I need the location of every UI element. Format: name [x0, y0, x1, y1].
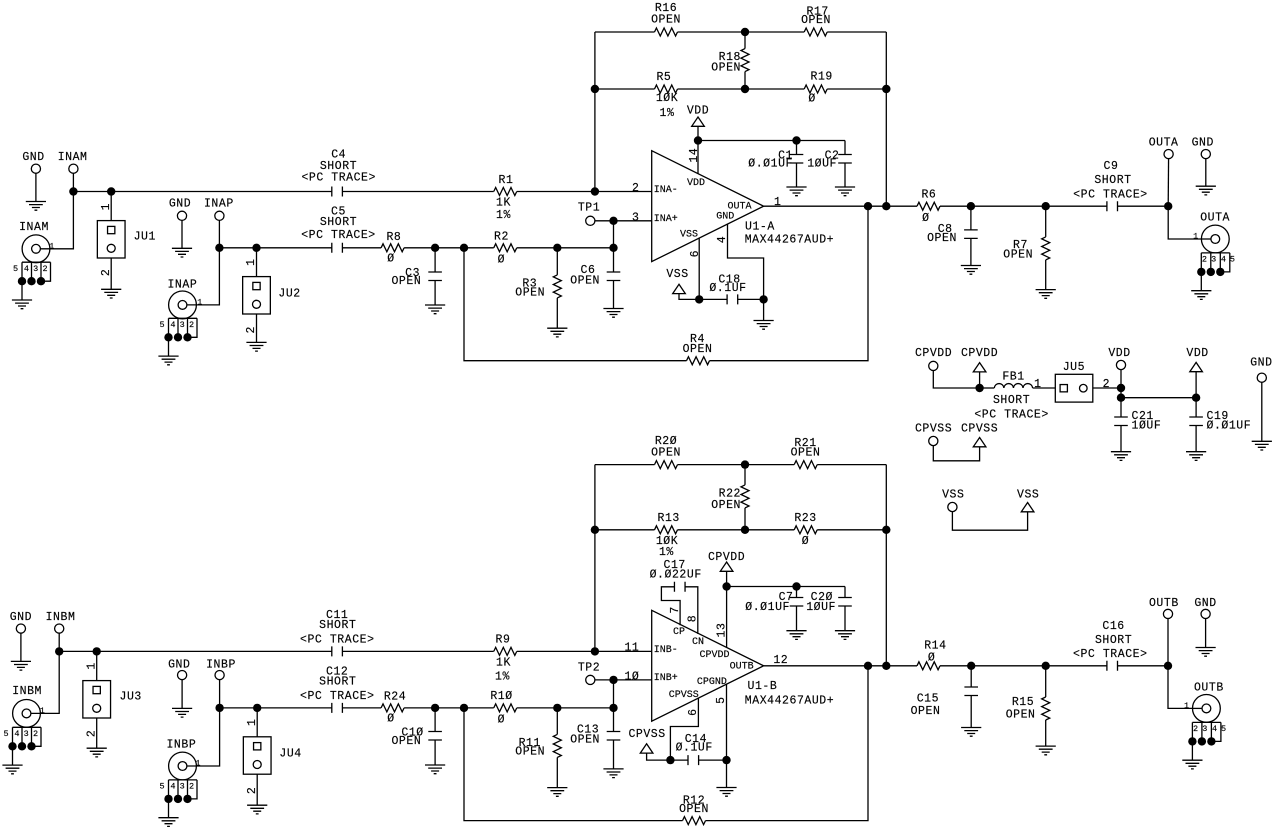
connector INAM BNC outer circle — [22, 235, 50, 263]
svg-text:OPEN: OPEN — [1006, 709, 1036, 722]
capacitor C11 — [332, 646, 343, 656]
ground under C19 — [1186, 452, 1206, 461]
svg-text:VSS: VSS — [942, 488, 964, 501]
resistor R3 — [553, 275, 561, 298]
JU2 pin 2 lead — [256, 314, 258, 342]
power arrow VDD (U1-A) — [692, 117, 705, 126]
ground under C14 node — [716, 788, 736, 797]
wire INAM line segment 2 — [342, 191, 493, 193]
capacitor C12 — [332, 703, 343, 713]
INAP BNC pin junction — [174, 333, 182, 341]
INBP BNC pin junction — [164, 795, 172, 803]
resistor R5 — [655, 85, 678, 93]
resistor R15 — [1042, 697, 1050, 720]
connector INBM BNC outer circle — [13, 700, 41, 728]
OUTA BNC ground — [1191, 291, 1211, 300]
feedback mid wire segment 3 — [827, 88, 886, 90]
svg-text:JU1: JU1 — [134, 230, 156, 243]
svg-text:2: 2 — [189, 320, 194, 330]
junction C15 tap — [967, 662, 975, 670]
junction JU2 tap — [252, 244, 260, 252]
svg-text:5: 5 — [1230, 255, 1235, 265]
R3 top lead — [556, 248, 558, 275]
resistor R13 — [655, 526, 678, 534]
ground under GND port (top left) — [26, 202, 46, 211]
C21 bottom lead — [1120, 426, 1122, 452]
JU1 pin 1 lead — [110, 192, 112, 221]
svg-text:R13: R13 — [658, 512, 680, 525]
jumper JU2 body — [243, 277, 271, 314]
svg-text:R1: R1 — [499, 174, 514, 187]
CPVDD port lead — [933, 366, 979, 388]
wire INBP line segment 3 — [404, 707, 494, 709]
svg-text:13: 13 — [715, 623, 728, 638]
svg-text:4: 4 — [170, 320, 175, 330]
junction R3 node — [553, 244, 561, 252]
svg-text:GND: GND — [168, 658, 190, 671]
R4 loop wire right — [710, 206, 869, 361]
port INAM — [69, 164, 78, 173]
TP1 to INA+ wire — [595, 220, 652, 222]
C6 bottom lead — [613, 281, 615, 309]
svg-text:4: 4 — [170, 782, 175, 792]
svg-text:OPEN: OPEN — [570, 734, 600, 747]
C15 top lead — [970, 666, 972, 687]
svg-text:1: 1 — [774, 196, 781, 209]
junction INBP-port — [215, 704, 223, 712]
INBM BNC pin junction — [8, 742, 16, 750]
C10 bottom lead — [434, 740, 436, 765]
ground under C20 — [835, 631, 855, 640]
CPVDD bypass wire — [727, 586, 845, 588]
svg-text:VSS: VSS — [666, 268, 688, 281]
connector INAM BNC pin 1 wire — [36, 192, 73, 249]
ground under C8 — [961, 266, 981, 275]
svg-text:C9: C9 — [1104, 160, 1119, 173]
svg-text:GND: GND — [716, 212, 734, 223]
junction INA- node — [591, 187, 599, 195]
C14 left lead — [670, 759, 688, 761]
C1 bottom lead — [796, 163, 798, 187]
connector INBM BNC inner circle — [22, 709, 31, 718]
capacitor C19 — [1189, 417, 1203, 426]
svg-text:GND: GND — [1192, 137, 1214, 150]
svg-text:1: 1 — [1034, 378, 1041, 391]
OUTB BNC pin bracket — [1192, 722, 1221, 741]
svg-text:OPEN: OPEN — [791, 447, 821, 460]
junction C18 right — [759, 295, 767, 303]
port INBP — [215, 671, 224, 680]
svg-text:1ØUF: 1ØUF — [1132, 419, 1162, 432]
svg-text:11: 11 — [624, 642, 639, 655]
svg-text:3: 3 — [1211, 255, 1216, 265]
ground under C13 — [603, 769, 623, 778]
capacitor C8 — [964, 230, 978, 239]
svg-text:OUTA: OUTA — [1200, 211, 1230, 224]
C13 bottom lead — [613, 740, 615, 769]
svg-text:OPEN: OPEN — [711, 499, 741, 512]
svg-text:12: 12 — [773, 654, 788, 667]
junction CPVDD-FB1 — [975, 384, 983, 392]
ground under R3 — [547, 328, 567, 337]
svg-text:R19: R19 — [811, 71, 833, 84]
svg-text:OPEN: OPEN — [570, 274, 600, 287]
svg-text:Ø: Ø — [928, 652, 935, 665]
C8 top lead — [970, 206, 972, 230]
wire INBM line segment 2 — [342, 650, 493, 652]
port GND (mid right) — [1257, 373, 1266, 382]
junction feedback right output B — [882, 662, 890, 670]
svg-text:R24: R24 — [384, 690, 406, 703]
ground under C15 — [961, 728, 981, 737]
ground under C21 — [1111, 452, 1131, 461]
port GND (top left) — [31, 164, 40, 173]
svg-text:1%: 1% — [495, 670, 510, 683]
svg-text:5: 5 — [160, 320, 165, 330]
svg-text:OPEN: OPEN — [679, 803, 709, 816]
wire OUTA segment 2 — [940, 205, 1107, 207]
INAM BNC pin junction — [27, 277, 35, 285]
INAP BNC pin bracket — [169, 318, 198, 337]
INAM BNC ground lead — [21, 281, 23, 300]
junction R4 branch node — [460, 244, 468, 252]
svg-text:1: 1 — [49, 241, 54, 251]
svg-text:C16: C16 — [1102, 620, 1124, 633]
ground under GND port (bottom right) — [1196, 648, 1216, 657]
port VDD — [1116, 360, 1125, 369]
svg-text:INBM: INBM — [46, 611, 76, 624]
svg-text:14: 14 — [688, 148, 701, 163]
svg-text:VDD: VDD — [1186, 347, 1208, 360]
svg-text:OPEN: OPEN — [391, 275, 421, 288]
svg-text:R2: R2 — [494, 230, 509, 243]
R22 top lead — [744, 465, 746, 485]
svg-text:GND: GND — [22, 151, 44, 164]
VSS arrow lead to C18 — [679, 294, 699, 300]
C17 left wire / U1-B pin 7 — [661, 587, 680, 625]
svg-text:FB1: FB1 — [1002, 371, 1024, 384]
INBP BNC ground — [158, 818, 178, 827]
junction C6 node — [609, 244, 617, 252]
svg-text:INAP: INAP — [167, 278, 197, 291]
resistor R18 — [741, 49, 749, 72]
ground under GND port (top right) — [1196, 186, 1216, 195]
connector OUTB BNC pin 1 wire — [1193, 707, 1207, 709]
svg-text:2: 2 — [100, 269, 113, 276]
port CPVSS — [929, 436, 938, 445]
feedback mid wire B segment 3 — [817, 529, 886, 531]
svg-text:3: 3 — [1202, 724, 1207, 734]
connector INAM BNC inner circle — [32, 244, 41, 253]
svg-text:4: 4 — [716, 236, 729, 243]
svg-text:Ø.Ø22UF: Ø.Ø22UF — [650, 568, 702, 581]
svg-text:1: 1 — [195, 759, 200, 769]
junction feedback left R13 — [591, 526, 599, 534]
GND port lead (bottom left) — [20, 629, 22, 662]
svg-text:OPEN: OPEN — [683, 343, 713, 356]
power arrow VSS (U1-A) — [673, 284, 686, 293]
INAM port lead — [72, 169, 74, 192]
port OUTB — [1163, 609, 1172, 618]
svg-text:1: 1 — [246, 719, 259, 726]
svg-text:INA+: INA+ — [654, 214, 678, 225]
svg-text:OPEN: OPEN — [801, 14, 831, 27]
INBM BNC pin junction — [27, 742, 35, 750]
ground under GND port (bottom left) — [11, 661, 31, 670]
resistor R11 — [553, 734, 561, 757]
wire INBP line segment 4 — [517, 707, 614, 709]
svg-text:1: 1 — [100, 203, 113, 210]
svg-text:OPEN: OPEN — [1003, 249, 1033, 262]
port INBM — [55, 624, 64, 633]
port GND (bottom left) — [16, 624, 25, 633]
C14 ground lead — [726, 760, 728, 787]
feedback left vertical (B) — [594, 465, 596, 652]
svg-text:INB-: INB- — [654, 645, 678, 656]
C17 right wire / U1-B pin 8 — [685, 587, 698, 634]
svg-text:Ø: Ø — [802, 535, 809, 548]
junction JU4 tap — [253, 704, 261, 712]
svg-text:1K: 1K — [496, 657, 511, 670]
OUTA port lead — [1167, 154, 1169, 206]
wire OUTA segment 1 — [764, 205, 917, 207]
resistor R9 — [494, 647, 517, 655]
INAP BNC ground — [158, 356, 178, 365]
svg-text:INB+: INB+ — [654, 673, 678, 684]
jumper JU1 body — [97, 221, 125, 258]
capacitor C18 — [727, 294, 738, 304]
junction JU3 tap — [93, 647, 101, 655]
svg-text:CPVSS: CPVSS — [628, 728, 665, 741]
capacitor C6 — [607, 272, 621, 281]
feedback mid wire segment 2 — [678, 88, 805, 90]
resistor R8 — [381, 244, 404, 252]
svg-text:R8: R8 — [386, 231, 401, 244]
R12 loop wire right — [706, 666, 869, 821]
svg-text:R5: R5 — [656, 71, 671, 84]
R18 bottom lead — [744, 72, 746, 89]
svg-text:3: 3 — [180, 782, 185, 792]
C3 bottom lead — [434, 281, 436, 306]
capacitor C15 — [964, 687, 978, 696]
svg-text:<PC TRACE>: <PC TRACE> — [301, 229, 376, 242]
svg-text:OUTB: OUTB — [1149, 597, 1179, 610]
R7 top lead — [1045, 206, 1047, 237]
resistor R14 — [917, 662, 940, 670]
svg-text:1ØUF: 1ØUF — [807, 158, 837, 171]
svg-text:4: 4 — [24, 264, 29, 274]
resistor R17 — [804, 28, 827, 36]
GND port lead (top left) — [35, 169, 37, 202]
svg-text:VSS: VSS — [680, 230, 698, 241]
svg-text:CPGND: CPGND — [697, 677, 727, 688]
U1-B pin 6 wire — [670, 698, 698, 760]
R7 bottom lead — [1045, 260, 1047, 290]
INBM BNC pin junction — [18, 742, 26, 750]
svg-text:3: 3 — [632, 211, 639, 224]
svg-text:JU2: JU2 — [278, 288, 300, 301]
junction INB+ node — [609, 676, 617, 684]
ground under GND port (mid right) — [1252, 441, 1272, 450]
INAP port lead — [218, 216, 220, 248]
INBM BNC pin bracket — [13, 727, 42, 746]
R22 bottom lead — [744, 508, 746, 530]
feedback mid wire B segment 1 — [595, 529, 655, 531]
junction R15 tap — [1042, 662, 1050, 670]
junction C21 node — [1117, 394, 1125, 402]
junction C3 node — [431, 244, 439, 252]
C1 top lead — [796, 141, 798, 155]
C20 top lead — [844, 587, 846, 598]
svg-text:Ø.1UF: Ø.1UF — [709, 282, 746, 295]
OUTA junction to BNC wire — [1168, 206, 1201, 239]
power arrow VDD (right) — [1190, 362, 1203, 371]
svg-text:<PC TRACE>: <PC TRACE> — [300, 634, 375, 647]
C2 bottom lead — [844, 163, 846, 187]
C3 top lead — [434, 248, 436, 272]
feedback top wire B segment 3 — [817, 464, 886, 466]
JU4 pin 1 lead — [256, 708, 258, 737]
port OUTA — [1164, 150, 1173, 159]
svg-text:CPVSS: CPVSS — [961, 422, 998, 435]
OUTA BNC pin junction — [1216, 268, 1224, 276]
junction R22 top — [741, 460, 749, 468]
resistor R2 — [494, 244, 517, 252]
junction R7 tap — [1042, 202, 1050, 210]
CPVSS arrow lead to C14 — [647, 753, 671, 760]
connector INBP BNC pin 1 wire — [183, 708, 220, 766]
svg-text:1K: 1K — [496, 197, 511, 210]
wire OUTB segment 1 — [764, 665, 917, 667]
R11 bottom lead — [556, 757, 558, 787]
R18 top lead — [744, 32, 746, 49]
capacitor C5 — [332, 243, 343, 253]
ground under JU3 — [87, 748, 107, 757]
svg-text:<PC TRACE>: <PC TRACE> — [1073, 189, 1148, 202]
svg-text:U1-B: U1-B — [748, 680, 778, 693]
C19 top lead — [1195, 398, 1197, 417]
ground under C3 — [425, 305, 445, 314]
svg-text:GND: GND — [10, 611, 32, 624]
wire OUTB segment 3 — [1118, 665, 1169, 667]
svg-text:VSS: VSS — [1017, 488, 1039, 501]
VDD port lead — [1120, 365, 1122, 388]
port GND (mid bottom left) — [178, 671, 187, 680]
junction R12 loop top — [864, 662, 872, 670]
capacitor C13 — [607, 732, 621, 741]
ferrite bead FB1 — [994, 384, 1032, 388]
OUTB BNC pin junction — [1188, 737, 1196, 745]
resistor R16 — [655, 28, 678, 36]
svg-text:GND: GND — [1194, 597, 1216, 610]
svg-text:6: 6 — [689, 250, 702, 257]
svg-text:INAP: INAP — [204, 198, 234, 211]
wire INAP line segment 3 — [404, 247, 494, 249]
junction C10 node — [431, 704, 439, 712]
OUTB port lead — [1167, 614, 1169, 666]
R11 top lead — [556, 708, 558, 735]
jumper JU3 body — [83, 681, 111, 718]
U1-B pin 13 lead — [726, 587, 728, 648]
C21 top lead — [1120, 398, 1122, 417]
wire C13 node to INB+ line — [613, 680, 615, 732]
ground under R15 — [1036, 746, 1056, 755]
C14 right lead — [699, 759, 727, 761]
svg-text:3: 3 — [24, 729, 29, 739]
TP2 to INB+ wire — [595, 679, 652, 681]
svg-text:SHORT: SHORT — [319, 675, 356, 688]
port INAP — [215, 211, 224, 220]
wire INBM line segment 1 — [59, 650, 332, 652]
svg-text:6: 6 — [687, 708, 700, 715]
svg-text:TP1: TP1 — [578, 201, 600, 214]
OUTA BNC pin bracket — [1201, 253, 1230, 272]
junction INA+ node — [609, 217, 617, 225]
connector OUTA BNC pin 1 wire — [1201, 238, 1215, 240]
svg-text:VDD: VDD — [687, 178, 705, 189]
OUTB junction to BNC wire — [1168, 666, 1193, 709]
test point TP2 — [586, 675, 595, 684]
svg-text:1ØK: 1ØK — [656, 92, 678, 105]
svg-text:OPEN: OPEN — [911, 705, 941, 718]
power arrow CPVSS — [973, 438, 986, 447]
R4 loop wire left — [464, 248, 687, 361]
svg-text:R1Ø: R1Ø — [490, 690, 512, 703]
svg-text:1: 1 — [1184, 701, 1189, 711]
capacitor C4 — [332, 187, 343, 197]
svg-text:GND: GND — [169, 198, 191, 211]
C7 bottom lead — [796, 606, 798, 631]
R15 top lead — [1045, 666, 1047, 697]
JU4 pin 2 lead — [256, 774, 258, 805]
ground under C6 — [603, 309, 623, 318]
svg-text:CPVDD: CPVDD — [915, 347, 952, 360]
svg-text:1: 1 — [85, 662, 98, 669]
feedback top wire B segment 2 — [678, 464, 795, 466]
connector OUTA BNC outer circle — [1201, 225, 1229, 253]
svg-text:SHORT: SHORT — [1095, 634, 1132, 647]
C19 bottom lead — [1195, 426, 1197, 452]
svg-text:OUTA: OUTA — [1149, 137, 1179, 150]
resistor R4 — [687, 357, 710, 365]
svg-text:CPVDD: CPVDD — [699, 650, 729, 661]
svg-text:OPEN: OPEN — [927, 232, 957, 245]
svg-text:CN: CN — [692, 637, 704, 648]
junction R11 node — [553, 704, 561, 712]
junction feedback right R23 — [882, 526, 890, 534]
svg-text:1%: 1% — [659, 546, 674, 559]
GND port lead (mid right) — [1261, 378, 1263, 442]
op-amp U1-A body — [652, 151, 764, 262]
svg-text:8: 8 — [687, 615, 700, 622]
OUTA BNC ground lead — [1200, 272, 1202, 291]
svg-text:4: 4 — [1212, 724, 1217, 734]
svg-text:2: 2 — [189, 782, 194, 792]
svg-text:Ø: Ø — [387, 253, 394, 266]
svg-text:Ø: Ø — [808, 93, 815, 106]
ground under JU2 — [246, 342, 266, 351]
ground under R11 — [547, 788, 567, 797]
OUTB BNC ground lead — [1191, 741, 1193, 760]
feedback right vertical — [885, 32, 887, 206]
JU5 pin 2 wire — [1093, 387, 1121, 389]
VDD node vertical — [1120, 388, 1122, 398]
INAM BNC pin junction — [37, 277, 45, 285]
svg-text:JU5: JU5 — [1063, 361, 1085, 374]
ground under JU4 — [247, 805, 267, 814]
svg-text:1%: 1% — [496, 209, 511, 222]
svg-text:2: 2 — [33, 729, 38, 739]
